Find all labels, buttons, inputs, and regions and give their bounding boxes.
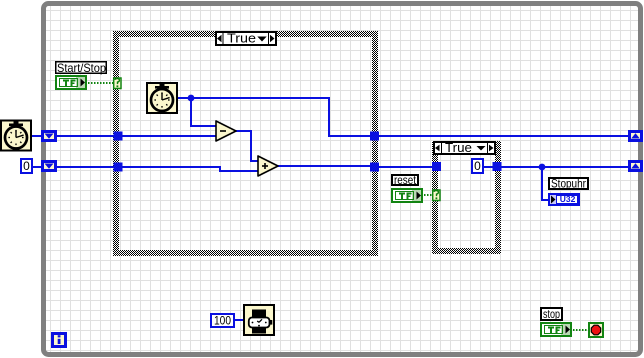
wire: case1 tunnel1 to subtract lower input — [122, 135, 216, 137]
wire: left SR1 to case1 left tunnel 1 — [57, 135, 114, 137]
wire: reset to case2 selector (green dotted) — [424, 194, 432, 196]
left shift register 1 — [41, 130, 57, 142]
constant 0 (case2) — [472, 159, 483, 173]
case structure 2 border — [432, 141, 501, 254]
svg-text:100: 100 — [214, 314, 231, 328]
tunnel: case1 left 1 — [114, 132, 123, 141]
iteration terminal i — [53, 334, 66, 347]
add function — [258, 156, 278, 176]
right shift register 2 — [628, 160, 643, 172]
label stop — [541, 307, 562, 321]
left shift register 2 — [41, 160, 57, 172]
svg-text:True: True — [445, 141, 472, 155]
wire: subtract output to add upper input — [236, 131, 258, 161]
wire: 100 constant to wait function — [235, 319, 244, 321]
tunnel: case2 right — [493, 162, 502, 171]
subtract function — [216, 121, 236, 141]
wire: branch down to Stopuhr indicator — [542, 167, 549, 200]
Start/Stop boolean terminal — [56, 76, 86, 89]
tick count (ms) 2 — [147, 83, 177, 113]
selector tunnel case1 (?) — [114, 78, 121, 89]
wire: 0 constant2 to case2 right tunnel — [484, 166, 493, 168]
wire: Start/Stop to case1 selector (green dotted) — [88, 82, 113, 84]
tunnel: case2 left — [432, 162, 441, 171]
wire: add output to case1 right tunnel 2 — [278, 165, 370, 167]
tunnel: case1 right 1 — [370, 132, 379, 141]
constant 0 (outside loop) — [21, 159, 32, 173]
Stopuhr U32 indicator terminal — [549, 194, 579, 205]
wait (ms) function — [244, 305, 274, 335]
wire: 0 constant to left SR2 — [33, 166, 42, 168]
svg-text:True: True — [227, 31, 256, 46]
wire: stop to loop condition terminal (green dotted) — [573, 329, 588, 331]
label Stopuhr — [549, 177, 588, 191]
loop condition terminal (stop sign) — [589, 323, 603, 337]
svg-text:0: 0 — [23, 159, 30, 173]
junction dot on wire to SR2 — [539, 164, 546, 171]
svg-text:stop: stop — [543, 307, 560, 321]
selector tunnel case2 (?) — [433, 190, 440, 201]
wire: case1 right tunnel1 to right SR1 — [379, 135, 629, 137]
label reset — [392, 173, 418, 187]
wire: case2 right tunnel to right SR2 — [501, 166, 629, 168]
svg-text:0: 0 — [474, 159, 481, 173]
svg-text:U32: U32 — [560, 194, 576, 204]
right shift register 1 — [628, 130, 643, 142]
tunnel: case1 left 2 — [114, 163, 123, 172]
tunnel: case1 right 2 — [370, 163, 379, 172]
case structure 1 border — [113, 31, 378, 256]
wire: case1 right tunnel2 to case2 left tunnel — [379, 166, 432, 168]
svg-text:Start/Stop: Start/Stop — [57, 61, 106, 75]
wire: tick count 1 to left shift register 1 — [31, 135, 42, 137]
label Start/Stop — [56, 61, 107, 75]
svg-text:Stopuhr: Stopuhr — [551, 177, 586, 191]
tick count (ms) 1 — [1, 121, 31, 151]
case structure 2 selector label — [434, 141, 495, 155]
stop boolean terminal — [541, 323, 571, 336]
junction dot on tick count 2 wire — [188, 95, 195, 102]
constant 100 — [211, 314, 234, 328]
svg-text:reset: reset — [394, 173, 417, 187]
wire: branch down to subtract upper input — [191, 98, 216, 126]
wire: left SR2 to case1 left tunnel 2 — [57, 166, 114, 168]
wire: tick count 2 output across top — [178, 98, 370, 136]
case structure 1 selector label — [216, 31, 276, 46]
reset boolean terminal — [392, 189, 422, 202]
wire: case1 tunnel2 to add lower input — [122, 167, 258, 171]
